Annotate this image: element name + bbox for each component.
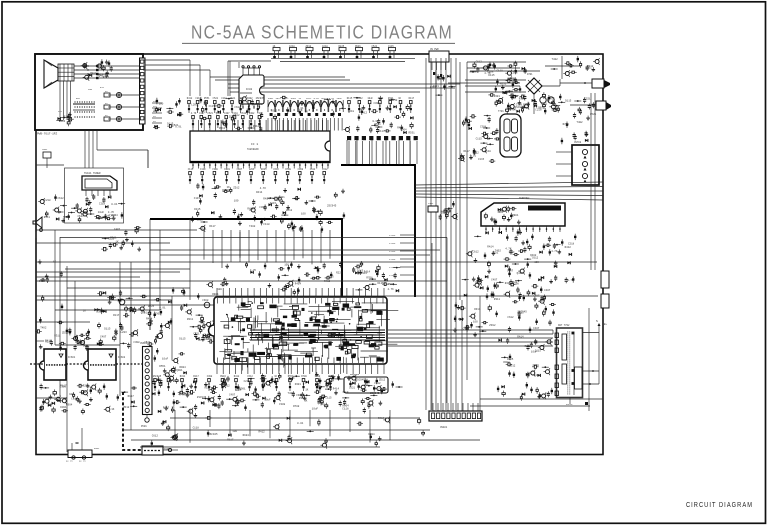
svg-text:4.7K: 4.7K [437, 78, 444, 81]
svg-text:R904: R904 [212, 293, 219, 296]
svg-text:D115: D115 [378, 282, 385, 285]
svg-text:100: 100 [506, 91, 511, 94]
svg-text:R311: R311 [299, 397, 306, 400]
svg-text:C118: C118 [378, 388, 385, 391]
svg-text:C612: C612 [71, 398, 78, 401]
svg-text:C521: C521 [213, 97, 219, 100]
svg-text:R412: R412 [203, 338, 210, 341]
svg-text:C218: C218 [322, 45, 328, 48]
svg-text:D301: D301 [96, 310, 103, 313]
svg-text:Q901: Q901 [141, 311, 148, 314]
svg-text:C218: C218 [244, 380, 251, 383]
svg-text:CN601: CN601 [140, 342, 148, 345]
svg-text:R225: R225 [458, 318, 465, 321]
svg-text:C308: C308 [207, 375, 213, 378]
svg-text:Q402: Q402 [249, 112, 255, 115]
svg-text:Q402: Q402 [318, 402, 325, 405]
svg-text:1K: 1K [305, 111, 309, 114]
svg-text:C118: C118 [39, 280, 46, 283]
svg-text:C218: C218 [99, 203, 106, 206]
svg-text:4.7K: 4.7K [505, 248, 512, 251]
svg-text:C115: C115 [388, 45, 394, 48]
svg-text:R225: R225 [148, 305, 155, 308]
svg-text:Q402: Q402 [534, 374, 541, 377]
svg-text:R311: R311 [180, 375, 186, 378]
svg-text:R117: R117 [209, 225, 216, 228]
svg-text:R225: R225 [103, 76, 110, 79]
svg-text:C308: C308 [259, 206, 266, 209]
svg-text:CN PWR: CN PWR [430, 48, 439, 51]
svg-text:C612: C612 [58, 197, 65, 200]
svg-text:C407: C407 [510, 108, 517, 111]
svg-text:C612: C612 [306, 97, 312, 100]
svg-text:R117: R117 [60, 385, 67, 388]
svg-text:4.7K: 4.7K [191, 112, 197, 115]
svg-text:C118: C118 [263, 223, 270, 226]
svg-text:D115: D115 [270, 202, 277, 205]
svg-text:R904: R904 [220, 375, 226, 378]
svg-text:R551: R551 [498, 210, 505, 213]
svg-text:1K: 1K [227, 186, 231, 189]
svg-text:Q901: Q901 [90, 72, 97, 75]
svg-text:2SC945: 2SC945 [153, 375, 162, 378]
svg-text:TA8690AN: TA8690AN [247, 148, 259, 151]
svg-text:D301: D301 [155, 313, 162, 316]
svg-text:X401: X401 [428, 202, 434, 205]
svg-text:C115: C115 [478, 158, 485, 161]
svg-text:C115: C115 [64, 116, 71, 119]
svg-text:R311: R311 [200, 228, 207, 231]
svg-text:T701: T701 [498, 110, 504, 113]
svg-text:T402: T402 [288, 392, 295, 395]
svg-text:R225: R225 [83, 385, 90, 388]
svg-text:C308: C308 [487, 71, 494, 74]
svg-text:T402: T402 [40, 327, 47, 330]
svg-text:D115: D115 [488, 74, 495, 77]
svg-text:T402: T402 [552, 58, 559, 61]
svg-text:R708: R708 [563, 123, 570, 126]
svg-text:D301: D301 [291, 97, 297, 100]
svg-text:IC 1: IC 1 [251, 143, 258, 146]
svg-text:D301: D301 [268, 97, 274, 100]
svg-text:R225: R225 [525, 345, 532, 348]
svg-text:R117: R117 [113, 314, 120, 317]
svg-text:Q402: Q402 [517, 272, 524, 275]
svg-text:10uF: 10uF [509, 251, 516, 254]
svg-text:D701: D701 [527, 73, 533, 76]
svg-text:CN401: CN401 [440, 426, 448, 429]
svg-text:V-OUT: V-OUT [389, 250, 396, 253]
svg-text:R414: R414 [295, 283, 302, 286]
svg-text:4.7K: 4.7K [388, 288, 395, 291]
svg-text:R414: R414 [487, 246, 494, 249]
svg-text:C118: C118 [485, 150, 492, 153]
svg-text:R412: R412 [247, 208, 254, 211]
svg-text:2SC945: 2SC945 [253, 103, 263, 106]
svg-text:R551: R551 [409, 131, 416, 134]
svg-text:R708: R708 [285, 168, 291, 171]
svg-text:4.7K: 4.7K [250, 269, 257, 272]
svg-text:R11: R11 [100, 86, 105, 89]
svg-text:C612: C612 [152, 435, 159, 438]
svg-text:R412: R412 [361, 112, 368, 115]
svg-text:R551: R551 [204, 97, 210, 100]
svg-text:C308: C308 [374, 102, 381, 105]
svg-text:CN702: CN702 [574, 141, 582, 144]
svg-text:4.7K: 4.7K [260, 187, 267, 190]
svg-text:2SC945: 2SC945 [184, 393, 194, 396]
svg-text:C308: C308 [511, 71, 518, 74]
svg-text:NC-5AA SCHEMETIC DIAGRAM: NC-5AA SCHEMETIC DIAGRAM [191, 22, 453, 43]
svg-text:CIRCUIT DIAGRAM: CIRCUIT DIAGRAM [686, 500, 753, 509]
svg-text:C612: C612 [234, 106, 241, 109]
svg-text:D115: D115 [347, 97, 353, 100]
svg-text:R708: R708 [513, 282, 520, 285]
svg-text:C308: C308 [298, 168, 304, 171]
svg-text:R311: R311 [219, 127, 226, 130]
svg-text:10uF: 10uF [104, 214, 111, 217]
svg-text:100: 100 [234, 200, 239, 203]
svg-text:C407: C407 [229, 394, 236, 397]
svg-text:C407: C407 [100, 336, 107, 339]
svg-text:C218: C218 [535, 108, 542, 111]
svg-text:C407: C407 [463, 328, 470, 331]
svg-text:C612: C612 [241, 112, 247, 115]
svg-text:C01: C01 [58, 110, 63, 113]
svg-text:2SC945: 2SC945 [518, 311, 528, 314]
svg-text:C521: C521 [207, 112, 213, 115]
svg-text:ZD12: ZD12 [391, 99, 398, 102]
svg-text:C118: C118 [342, 407, 349, 410]
svg-text:L203: L203 [191, 103, 198, 106]
svg-text:R225: R225 [328, 275, 335, 278]
svg-text:C218: C218 [348, 110, 355, 113]
svg-text:C115: C115 [209, 105, 216, 108]
svg-text:C612: C612 [273, 168, 279, 171]
svg-text:2SC945: 2SC945 [327, 204, 337, 207]
svg-text:R412: R412 [324, 280, 331, 283]
svg-text:D115: D115 [104, 327, 111, 330]
svg-text:C115: C115 [535, 349, 542, 352]
svg-text:ZD12: ZD12 [233, 187, 240, 190]
svg-text:ZD12: ZD12 [509, 364, 516, 367]
svg-text:ZD12: ZD12 [286, 209, 293, 212]
svg-text:C308: C308 [533, 364, 540, 367]
svg-text:TU101 TUNER: TU101 TUNER [84, 172, 101, 175]
svg-text:10uF: 10uF [162, 357, 169, 360]
svg-text:ZD12: ZD12 [319, 101, 326, 104]
svg-text:C407: C407 [199, 112, 205, 115]
svg-text:C407: C407 [533, 295, 540, 298]
svg-text:0.01: 0.01 [297, 107, 304, 110]
svg-text:R225: R225 [339, 45, 345, 48]
svg-text:C407: C407 [237, 168, 243, 171]
svg-text:L203: L203 [59, 120, 66, 123]
svg-text:4.7K: 4.7K [551, 250, 558, 253]
svg-text:R225: R225 [336, 271, 343, 274]
svg-text:100: 100 [534, 261, 539, 264]
svg-text:C115: C115 [194, 197, 201, 200]
svg-text:2SC945: 2SC945 [358, 272, 368, 275]
svg-text:R225: R225 [108, 237, 115, 240]
svg-text:100: 100 [284, 264, 289, 267]
svg-text:C521: C521 [349, 386, 356, 389]
svg-text:R311: R311 [187, 318, 194, 321]
svg-text:R904: R904 [368, 433, 375, 436]
svg-text:R117: R117 [205, 387, 212, 390]
svg-text:R708: R708 [366, 276, 373, 279]
svg-text:R551: R551 [375, 123, 382, 126]
svg-text:R412: R412 [565, 246, 572, 249]
svg-text:C308: C308 [279, 403, 286, 406]
svg-text:R117: R117 [163, 407, 170, 410]
svg-text:R551: R551 [159, 365, 166, 368]
svg-text:C218: C218 [568, 243, 575, 246]
svg-text:R414: R414 [333, 388, 340, 391]
svg-text:R117: R117 [193, 375, 199, 378]
svg-text:100: 100 [217, 288, 222, 291]
svg-text:D301: D301 [279, 196, 286, 199]
svg-text:C118: C118 [497, 70, 504, 73]
svg-text:0.01: 0.01 [470, 155, 477, 158]
svg-text:2SC945: 2SC945 [356, 379, 366, 382]
svg-text:AC IN: AC IN [79, 460, 86, 463]
svg-text:ZD12: ZD12 [489, 324, 496, 327]
svg-text:C05: C05 [88, 88, 93, 91]
svg-text:S: S [596, 320, 598, 323]
svg-text:C308: C308 [212, 168, 218, 171]
svg-text:ZD12: ZD12 [62, 331, 69, 334]
svg-text:C407: C407 [507, 269, 514, 272]
svg-text:R412: R412 [259, 431, 266, 434]
svg-text:C612: C612 [357, 97, 363, 100]
svg-text:D115: D115 [179, 337, 186, 340]
svg-text:10uF: 10uF [367, 97, 373, 100]
svg-text:V-OUT: V-OUT [389, 242, 396, 245]
svg-text:10uF: 10uF [336, 97, 342, 100]
svg-text:R708: R708 [261, 375, 267, 378]
svg-text:R02: R02 [76, 97, 81, 100]
svg-text:R117: R117 [128, 395, 135, 398]
svg-text:IC02: IC02 [246, 88, 253, 91]
svg-text:PWB-7617-1PZ: PWB-7617-1PZ [37, 133, 57, 136]
svg-text:D115: D115 [565, 100, 572, 103]
svg-text:C118: C118 [200, 168, 206, 171]
svg-text:R412: R412 [253, 125, 260, 128]
svg-text:4.7K: 4.7K [108, 211, 115, 214]
svg-text:0.01: 0.01 [166, 375, 172, 378]
svg-text:C612: C612 [310, 168, 316, 171]
svg-text:D115: D115 [194, 208, 201, 211]
svg-text:0.01: 0.01 [159, 307, 166, 310]
svg-text:R904: R904 [243, 434, 250, 437]
svg-text:C308: C308 [202, 299, 209, 302]
svg-text:2SC945: 2SC945 [256, 97, 265, 100]
svg-text:C521: C521 [193, 332, 200, 335]
svg-text:C115: C115 [476, 138, 483, 141]
svg-text:SW01: SW01 [42, 148, 48, 151]
svg-text:Q901: Q901 [512, 214, 519, 217]
svg-text:D301: D301 [295, 383, 302, 386]
svg-text:V-OUT: V-OUT [389, 274, 396, 277]
svg-text:T402: T402 [495, 250, 502, 253]
svg-text:Q901: Q901 [239, 388, 246, 391]
svg-text:R414: R414 [256, 191, 263, 194]
svg-text:2SC945: 2SC945 [208, 433, 218, 436]
svg-text:1K: 1K [111, 408, 115, 411]
svg-text:D115: D115 [441, 211, 448, 214]
svg-text:4.7K: 4.7K [552, 108, 559, 111]
svg-text:D301: D301 [494, 95, 501, 98]
svg-text:0.01: 0.01 [314, 97, 320, 100]
svg-text:P601: P601 [141, 425, 147, 428]
svg-text:R311: R311 [54, 335, 61, 338]
svg-text:C521: C521 [372, 45, 378, 48]
svg-text:R117: R117 [409, 97, 415, 100]
svg-text:R551: R551 [44, 216, 51, 219]
svg-text:C612: C612 [233, 114, 240, 117]
svg-text:D301: D301 [586, 67, 593, 70]
svg-text:2SC945: 2SC945 [308, 102, 318, 105]
svg-text:C218: C218 [44, 199, 51, 202]
svg-text:FOCUS: FOCUS [566, 403, 573, 406]
svg-text:ZD12: ZD12 [306, 45, 312, 48]
svg-text:R904: R904 [343, 404, 350, 407]
svg-text:C612: C612 [271, 110, 278, 113]
svg-text:2SC945: 2SC945 [197, 396, 207, 399]
svg-text:L203: L203 [121, 331, 128, 334]
svg-text:V-OUT: V-OUT [389, 266, 396, 269]
svg-text:C521: C521 [584, 98, 591, 101]
svg-text:R414: R414 [378, 417, 385, 420]
svg-text:FBT T702: FBT T702 [558, 324, 570, 327]
svg-text:C612: C612 [507, 316, 514, 319]
svg-text:R414: R414 [517, 336, 524, 339]
svg-text:R708: R708 [301, 375, 307, 378]
svg-text:V-OUT: V-OUT [389, 234, 396, 237]
svg-text:C218: C218 [289, 45, 295, 48]
svg-text:C612: C612 [476, 60, 483, 63]
svg-text:C407: C407 [491, 278, 498, 281]
svg-text:10uF: 10uF [312, 407, 319, 410]
svg-text:1K: 1K [305, 389, 309, 392]
svg-text:100: 100 [69, 393, 74, 396]
svg-text:R412: R412 [187, 97, 193, 100]
svg-text:100: 100 [301, 212, 306, 215]
svg-text:R414: R414 [263, 198, 270, 201]
svg-text:R311: R311 [494, 298, 501, 301]
svg-text:L203: L203 [249, 168, 255, 171]
svg-text:R414: R414 [112, 214, 119, 217]
svg-text:C521: C521 [78, 215, 85, 218]
svg-text:AC IN: AC IN [66, 460, 73, 463]
svg-text:D301: D301 [224, 168, 230, 171]
svg-text:REMOCON: REMOCON [350, 373, 360, 376]
svg-text:R412: R412 [224, 384, 231, 387]
svg-text:C612: C612 [473, 251, 480, 254]
svg-text:0.01: 0.01 [175, 125, 182, 128]
svg-text:C407: C407 [533, 327, 540, 330]
svg-text:C118: C118 [193, 427, 200, 430]
svg-text:C612: C612 [374, 382, 381, 385]
svg-text:C612: C612 [247, 375, 253, 378]
svg-text:Q901: Q901 [176, 369, 183, 372]
svg-text:0.01: 0.01 [372, 120, 379, 123]
svg-text:1K: 1K [53, 260, 57, 263]
svg-text:R117: R117 [45, 341, 52, 344]
svg-text:R412: R412 [234, 375, 240, 378]
svg-text:0.01: 0.01 [297, 422, 304, 425]
svg-text:R117: R117 [378, 130, 385, 133]
svg-text:R904: R904 [400, 128, 407, 131]
svg-text:4.7K: 4.7K [567, 279, 574, 282]
svg-text:T402: T402 [249, 225, 256, 228]
svg-text:C612: C612 [322, 168, 328, 171]
svg-text:R414: R414 [146, 318, 153, 321]
svg-text:IC601: IC601 [68, 356, 76, 359]
svg-text:ZD12: ZD12 [123, 406, 130, 409]
svg-text:C115: C115 [188, 168, 194, 171]
svg-text:100: 100 [473, 320, 478, 323]
svg-text:T402: T402 [576, 121, 583, 124]
svg-text:TERMINAL: TERMINAL [519, 197, 531, 200]
svg-text:C308: C308 [480, 126, 487, 129]
svg-text:C407: C407 [224, 112, 230, 115]
svg-text:R225: R225 [523, 103, 530, 106]
svg-text:F601: F601 [94, 447, 100, 450]
svg-text:C407: C407 [544, 289, 551, 292]
svg-text:D301: D301 [60, 406, 67, 409]
svg-text:D301: D301 [78, 342, 85, 345]
svg-text:1K: 1K [172, 406, 176, 409]
svg-text:R904: R904 [388, 283, 395, 286]
svg-text:R225: R225 [261, 168, 267, 171]
svg-text:10uF: 10uF [264, 398, 271, 401]
svg-text:C115: C115 [325, 396, 332, 399]
svg-text:R904: R904 [66, 403, 73, 406]
svg-text:Q402: Q402 [530, 254, 537, 257]
svg-text:IC602: IC602 [118, 356, 126, 359]
svg-text:V-OUT: V-OUT [389, 258, 396, 261]
svg-text:0.01: 0.01 [111, 203, 118, 206]
svg-text:R708: R708 [293, 405, 300, 408]
svg-text:Q901: Q901 [355, 45, 361, 48]
